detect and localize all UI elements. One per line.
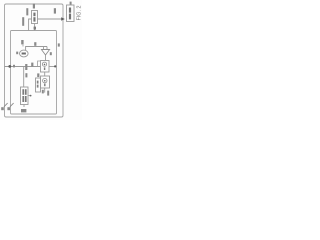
arrowhead at frame edge	[61, 17, 65, 20]
wire U1 output to connector J1	[38, 18, 63, 20]
label 9 (near junction)	[13, 65, 15, 68]
background	[0, 0, 82, 120]
amplifier input stubs	[44, 47, 48, 50]
wire U1 left stub	[29, 19, 32, 31]
U5 internal label text	[69, 8, 71, 13]
wire K1 to K2	[44, 72, 46, 76]
inner circuit enclosure	[11, 31, 57, 115]
label 22	[7, 107, 10, 110]
label 142 (below bus wire)	[25, 64, 27, 70]
bus wire across middle	[5, 66, 41, 68]
label 2 (above driver box)	[37, 73, 39, 77]
driver internal marks	[37, 81, 39, 84]
outer housing frame	[5, 4, 64, 117]
op-amp output wire	[45, 55, 47, 61]
label 11 (below K2 right)	[47, 91, 49, 96]
external box U5 (top right)	[67, 5, 75, 22]
M1 center element	[22, 53, 26, 55]
node label 8 on bottom wire	[34, 27, 36, 30]
K1 coil circle	[42, 62, 46, 66]
B1 internal label text	[22, 89, 24, 95]
mic wire to amplifier	[26, 47, 47, 51]
junction dot at enclosure right edge	[54, 65, 56, 67]
label 1 (right of enclosure edge)	[58, 43, 60, 46]
K2 contact mark	[44, 84, 45, 87]
label 27 (above wire)	[54, 8, 56, 13]
B1 right stub with dot	[28, 95, 30, 97]
K2 coil circle	[43, 78, 47, 82]
label 10 (above U5)	[70, 2, 72, 5]
label 145 (left, with leader tick)	[21, 40, 23, 44]
junction dot at enclosure left edge	[8, 65, 11, 68]
label 146 (left of U1)	[26, 8, 28, 15]
svg-text:FIG. 2: FIG. 2	[77, 6, 83, 21]
label 4 (below K2 left)	[42, 90, 44, 94]
K1 contact mark	[44, 67, 45, 70]
label 40 (above bus wire)	[31, 63, 33, 67]
leader tick	[22, 45, 24, 47]
label 2 (above mic wire)	[34, 42, 36, 46]
driver sub-box (left of K2)	[36, 78, 41, 92]
wire K2 bottom stub	[44, 88, 46, 93]
label 144 (left of wire)	[22, 17, 24, 26]
U1 internal label text	[33, 13, 35, 17]
microphone transducer M1 (ellipse)	[20, 50, 29, 57]
B1 bottom tick	[23, 105, 25, 108]
battery box B1	[21, 87, 29, 105]
label 76 (above U1)	[33, 4, 35, 9]
wire K1 right to enclosure edge	[49, 66, 57, 68]
label 14 (right of battery wire)	[25, 73, 27, 77]
relay box K1	[41, 61, 50, 73]
label 3 (left of M1)	[16, 52, 18, 55]
K2 coil center dot	[44, 80, 46, 82]
battery wire from bus down	[23, 67, 25, 88]
label 5 (right of op-amp)	[50, 52, 52, 55]
op-amp A1 (triangle pointing down)	[41, 50, 49, 56]
relay box K2	[41, 76, 50, 88]
wire U1 bottom to enclosure	[34, 24, 36, 31]
leader arrow to enclosure (bottom left)	[10, 103, 14, 107]
leader arrow to frame (bottom left)	[4, 103, 8, 107]
K1 coil center dot	[44, 64, 46, 66]
label 12 (below B1)	[21, 109, 26, 112]
leader tick to relay box	[38, 61, 40, 67]
oscillator box U1	[32, 11, 38, 24]
label 20	[1, 107, 4, 110]
